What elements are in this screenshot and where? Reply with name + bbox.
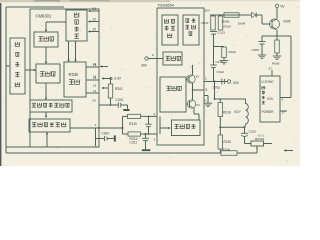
block field oscillator — [34, 32, 58, 47]
wire into oscillator top — [45, 22, 66, 32]
block driver amplifier — [172, 120, 201, 136]
IC bottom line — [6, 146, 99, 148]
svg-text:CM6301: CM6301 — [36, 14, 52, 19]
block protection circuit — [162, 15, 178, 45]
svg-text:3.3V: 3.3V — [114, 77, 122, 81]
svg-text:TDA3654: TDA3654 — [157, 3, 175, 8]
block field sawtooth generator — [30, 100, 72, 112]
wire A to TDA pin 2 — [123, 112, 158, 116]
resistor R311 — [128, 132, 141, 145]
diode D604 — [238, 13, 256, 26]
svg-text:R313: R313 — [202, 21, 209, 25]
svg-text:100μ: 100μ — [213, 86, 220, 90]
capacitor C313a — [210, 31, 225, 47]
resistor R312 ground — [214, 47, 237, 64]
transistor V2 — [187, 100, 201, 108]
MCU box — [260, 76, 280, 122]
feedback arrow into preamp bottom — [46, 132, 48, 147]
svg-text:C313: C313 — [218, 31, 226, 35]
deflection coil VDY — [234, 99, 248, 127]
label CM6301 — [36, 14, 52, 19]
pin 22 wire — [88, 18, 99, 23]
svg-text:C313: C313 — [216, 60, 224, 64]
svg-text:R301: R301 — [115, 87, 123, 91]
pin 1 output wire — [204, 77, 227, 83]
label TDA3654 — [157, 3, 175, 8]
arrow from power switch — [284, 149, 293, 151]
label POWER pin 17 — [262, 110, 288, 115]
svg-text:30V: 30V — [141, 64, 148, 68]
capacitor C310 to chassis — [95, 128, 116, 146]
svg-text:VDY: VDY — [234, 110, 242, 114]
svg-text:27: 27 — [269, 67, 273, 71]
capacitor C301 to chassis — [116, 98, 130, 111]
capacitor C605 ground — [252, 36, 278, 58]
IC CM6301 outline — [30, 9, 99, 147]
driver to output stage wire — [194, 108, 199, 120]
wire V1 emitter to V2 collector — [192, 83, 194, 100]
svg-text:20: 20 — [93, 28, 97, 32]
wire oscillator to divider — [45, 47, 47, 64]
pin 5 ground — [204, 88, 213, 107]
resistor R606 ground — [272, 36, 281, 66]
svg-text:RGB: RGB — [69, 72, 78, 77]
svg-text:R316: R316 — [222, 148, 230, 152]
capacitor C326 — [241, 127, 256, 143]
rail to MCU — [277, 36, 291, 98]
svg-text:C301: C301 — [116, 98, 124, 102]
caption fragment — [258, 134, 265, 138]
wire pin to C301 — [93, 98, 119, 106]
svg-text:22: 22 — [93, 18, 97, 22]
pin 27 stub — [269, 67, 273, 77]
driver input arrow — [160, 116, 171, 134]
block switch circuit — [66, 10, 87, 41]
wire A riser — [122, 116, 124, 128]
svg-text:1: 1 — [205, 77, 207, 81]
terminal 30V output — [227, 80, 239, 85]
svg-text:30V: 30V — [205, 9, 210, 13]
bottom feedback wire — [6, 152, 221, 154]
svg-text:C312: C312 — [217, 70, 225, 74]
resistor R310 — [128, 114, 141, 126]
terminal 9V — [275, 4, 285, 18]
node 3.3V — [110, 77, 122, 81]
transistor V605 — [270, 19, 291, 31]
resistor R313 — [202, 16, 216, 30]
svg-text:C326: C326 — [249, 130, 257, 134]
resistor R318 — [218, 99, 231, 127]
wires switch to RGB block — [67, 41, 76, 62]
resistor R301 — [108, 80, 123, 98]
pin 24 wire — [88, 7, 99, 12]
RGB pin stubs — [86, 63, 99, 93]
wire preamp output — [70, 123, 124, 129]
svg-text:R312: R312 — [229, 50, 237, 54]
wire sync sep input stub — [6, 65, 10, 67]
svg-text:18: 18 — [93, 74, 97, 78]
svg-text:R315: R315 — [224, 140, 232, 144]
svg-text:V605: V605 — [283, 20, 291, 24]
CM6301 right pin stubs — [93, 62, 111, 89]
wire pin1 node down — [214, 82, 216, 100]
svg-text:V2: V2 — [196, 103, 200, 107]
label VOL pin 5 — [267, 97, 284, 102]
svg-text:30V: 30V — [233, 81, 240, 85]
wire output tap — [193, 89, 205, 91]
node wire to coil bottom — [219, 126, 245, 128]
capacitor C312 — [210, 47, 224, 82]
capacitor C311 to chassis — [142, 133, 151, 151]
block field sync separator — [10, 38, 25, 94]
resistor R314 — [218, 16, 223, 30]
svg-text:VOL: VOL — [267, 97, 274, 101]
coupling capacitor 100u — [213, 79, 225, 90]
svg-text:V1: V1 — [196, 75, 200, 79]
svg-text:V-SYNC: V-SYNC — [262, 80, 275, 84]
block field preamplifier — [29, 119, 70, 132]
capacitor between wires — [145, 116, 152, 135]
svg-text:R318: R318 — [223, 111, 231, 115]
wire sawtooth to preamp — [45, 112, 47, 118]
svg-text:C310: C310 — [102, 131, 110, 135]
wire B riser — [122, 128, 124, 134]
supply rail top wire — [205, 9, 251, 16]
wire output network top — [214, 98, 246, 100]
svg-text:RP301: RP301 — [255, 137, 265, 141]
svg-text:43: 43 — [93, 99, 97, 103]
block field divider — [36, 64, 60, 83]
pot wiper to feedback — [256, 146, 258, 153]
svg-text:9V: 9V — [281, 5, 286, 9]
svg-text:R310: R310 — [129, 122, 137, 126]
svg-text:16: 16 — [93, 84, 97, 88]
svg-text:B031: B031 — [258, 134, 265, 138]
block voltage regulator — [163, 52, 182, 65]
wire sync sep to divider — [25, 69, 36, 71]
pin 20 wire — [88, 28, 99, 33]
bottom wire right segment — [237, 152, 257, 154]
wire diode to V605 base — [256, 15, 270, 24]
IC TDA3654 outline — [157, 8, 204, 145]
svg-text:R606: R606 — [272, 62, 280, 66]
svg-text:C605: C605 — [252, 48, 260, 52]
svg-text:R314: R314 — [224, 25, 232, 29]
resistor R316 — [221, 148, 237, 155]
resistor R315 — [218, 127, 231, 153]
MCU left vertical label — [262, 86, 265, 104]
svg-text:POWER: POWER — [262, 110, 275, 114]
block output stage — [160, 77, 186, 112]
svg-text:R605: R605 — [222, 20, 230, 24]
block RGB output — [64, 62, 86, 97]
label V-SYNC — [262, 80, 275, 84]
resistor R605 — [222, 13, 239, 29]
wire V1 collector supply — [192, 65, 194, 75]
wire B to TDA pin 3 — [123, 134, 158, 142]
capacitor C313b — [213, 55, 223, 64]
svg-text:C311: C311 — [130, 141, 138, 145]
svg-text:13: 13 — [93, 89, 97, 93]
potentiometer RP301 — [245, 137, 273, 146]
V605 emitter wire — [276, 31, 278, 37]
svg-text:24: 24 — [93, 7, 97, 11]
transistor V1 — [186, 75, 200, 84]
terminal 30V to TDA pin 9 — [141, 53, 163, 68]
wire divider to sawtooth gen — [45, 83, 47, 100]
svg-text:5: 5 — [206, 88, 208, 92]
svg-text:D604: D604 — [238, 22, 246, 26]
block ramp generator — [183, 15, 199, 45]
svg-text:15: 15 — [93, 62, 97, 66]
